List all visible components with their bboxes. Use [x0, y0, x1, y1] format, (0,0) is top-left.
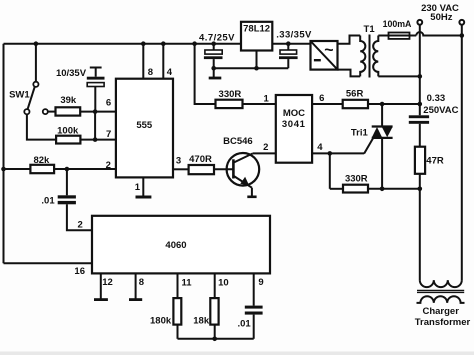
wire rail to 330R: [195, 44, 216, 104]
wire MOC pin6 to 56R: [312, 103, 343, 105]
bridge rectifier: [311, 41, 338, 70]
wire 4060 pin16 row: [4, 262, 93, 264]
svg-text:6: 6: [319, 93, 324, 104]
svg-text:7: 7: [106, 129, 111, 140]
wire collector to MOC pin2: [253, 152, 276, 154]
svg-text:3: 3: [176, 156, 181, 167]
resistor 39k: [56, 107, 81, 115]
wire 555 pin3 to 470R: [173, 168, 189, 170]
node SW1 rail junction: [34, 41, 39, 46]
svg-text:8: 8: [148, 67, 153, 78]
svg-text:18k: 18k: [193, 316, 210, 327]
svg-text:39k: 39k: [60, 95, 77, 106]
wire bridge to T1 top: [338, 36, 361, 44]
svg-text:.01: .01: [237, 319, 251, 330]
svg-text:4: 4: [317, 142, 323, 153]
wire ground row: [214, 67, 289, 69]
wire RC bottom row: [178, 338, 254, 340]
svg-text:SW1: SW1: [9, 90, 30, 101]
wire left rail: [3, 44, 5, 264]
wire 555 pin8: [142, 44, 144, 79]
svg-text:330R: 330R: [345, 174, 368, 185]
svg-text:470R: 470R: [189, 154, 212, 165]
wire right terminal column: [461, 25, 463, 280]
wire pin6-pin7 tie: [94, 112, 96, 140]
svg-text:56R: 56R: [346, 89, 364, 100]
resistor 180k: [173, 273, 181, 338]
node .01 junction: [65, 167, 70, 172]
wire triac gate diagonal: [364, 139, 373, 154]
svg-text:1: 1: [135, 182, 141, 193]
capacitor .01 left: [58, 169, 92, 230]
svg-text:.33/35V: .33/35V: [276, 30, 312, 41]
svg-text:9: 9: [258, 277, 263, 288]
wire 47R to charger transformer: [419, 174, 421, 280]
capacitor 4.7/25V: [204, 41, 223, 68]
switch SW1: [24, 82, 38, 115]
svg-text:50Hz: 50Hz: [430, 12, 452, 23]
wire top rail left segment: [4, 43, 242, 45]
charger transformer secondary winding: [417, 296, 465, 303]
svg-text:180k: 180k: [150, 316, 172, 327]
svg-text:16: 16: [74, 266, 85, 277]
resistor 82k: [30, 165, 54, 173]
charger transformer core: [417, 289, 464, 291]
svg-text:4: 4: [167, 67, 173, 78]
resistor 100k: [56, 136, 80, 144]
resistor 18k: [210, 273, 218, 338]
charger transformer primary winding: [420, 280, 462, 287]
ground 4060 pin12: [100, 273, 102, 298]
svg-text:10: 10: [218, 277, 229, 288]
svg-text:100k: 100k: [57, 125, 79, 136]
svg-text:T1: T1: [364, 24, 376, 35]
wire 555 pin4: [162, 44, 164, 79]
svg-text:4.7/25V: 4.7/25V: [199, 33, 235, 44]
svg-text:3041: 3041: [282, 119, 306, 130]
regulator 78L12: [241, 22, 272, 51]
wire T1 bottom to mains column: [378, 75, 420, 77]
wire SW1 to 100k: [27, 114, 56, 139]
node 230VAC right terminal: [459, 20, 464, 25]
capacitor C 10/35V: [87, 68, 105, 112]
node 82k rail junction: [1, 167, 6, 172]
wire MOC pin4 row: [312, 152, 364, 154]
wire SW1 column: [35, 44, 37, 82]
svg-text:330R: 330R: [219, 89, 242, 100]
ground 555 pin1: [142, 177, 144, 196]
capacitor .01 right: [245, 273, 263, 338]
transformer T1: [360, 35, 378, 78]
resistor 56R: [343, 100, 368, 108]
svg-text:BC546: BC546: [223, 136, 253, 147]
svg-text:78L12: 78L12: [243, 24, 270, 35]
capacitor 0.33 250VAC: [409, 115, 429, 146]
wire 330R to MOC pin1: [243, 103, 276, 105]
wire pin4 down to 330R row: [329, 153, 331, 188]
wire T1 top to fuse: [378, 35, 416, 37]
wire top rail right segment: [272, 43, 310, 45]
svg-text:47R: 47R: [426, 156, 444, 167]
wire hop over left terminal column: [416, 32, 462, 36]
node 230VAC left terminal: [417, 20, 422, 25]
wire bridge to T1 bottom: [338, 70, 361, 77]
wire 78L12 ground pin: [256, 51, 258, 69]
wire left terminal column: [419, 25, 421, 116]
opto-coupler U2 MOC3041: [276, 95, 312, 163]
resistor 47R: [415, 147, 425, 174]
ground 4060 pin8: [135, 273, 137, 298]
svg-text:.01: .01: [41, 196, 55, 207]
node 39k open terminal: [43, 109, 48, 114]
transistor Q1 BC546: [214, 153, 259, 188]
svg-text:~: ~: [324, 42, 333, 59]
wire node A row (56R to mains column): [368, 103, 420, 105]
ground symbol: [213, 68, 215, 77]
svg-text:10/35V: 10/35V: [56, 68, 87, 79]
svg-text:2: 2: [263, 142, 268, 153]
counter U3 4060: [92, 216, 270, 274]
svg-text:2: 2: [78, 220, 83, 231]
resistor 470R: [189, 165, 214, 174]
wire node C row right: [368, 188, 420, 190]
wire 82k left lead: [4, 168, 31, 170]
svg-text:0.33: 0.33: [427, 93, 446, 104]
node pin6 junction: [93, 109, 98, 114]
svg-text:555: 555: [136, 120, 153, 131]
svg-text:2: 2: [106, 160, 111, 171]
svg-text:82k: 82k: [33, 155, 50, 166]
resistor 330R lower: [343, 185, 368, 193]
svg-text:11: 11: [181, 277, 192, 288]
wire pin6 row: [80, 111, 116, 113]
ground BC546 emitter: [251, 188, 253, 196]
svg-text:4060: 4060: [165, 240, 186, 251]
svg-text:8: 8: [139, 277, 144, 288]
wire 39k lead: [48, 111, 56, 113]
svg-text:MOC: MOC: [283, 108, 305, 119]
node hop right junction: [460, 33, 465, 38]
op-amp U1 555 timer: [116, 79, 173, 178]
node pin7 junction: [93, 137, 98, 142]
svg-text:100mA: 100mA: [383, 19, 412, 29]
wire node C row left: [330, 188, 343, 190]
svg-text:250VAC: 250VAC: [423, 105, 458, 116]
svg-text:Charger: Charger: [422, 306, 459, 317]
svg-text:6: 6: [106, 98, 111, 109]
wire pin2 row: [54, 168, 116, 170]
capacitor .33/35V: [279, 41, 298, 68]
resistor 330R upper: [216, 100, 243, 108]
svg-text:12: 12: [102, 277, 113, 288]
fuse 100mA: [389, 33, 410, 39]
svg-text:Tri1: Tri1: [351, 127, 369, 138]
triac Tri1: [372, 104, 393, 189]
svg-text:Transformer: Transformer: [415, 317, 471, 328]
wire pin7 row: [80, 139, 116, 141]
svg-text:1: 1: [264, 94, 270, 105]
bottom scan strip: [0, 352, 474, 355]
